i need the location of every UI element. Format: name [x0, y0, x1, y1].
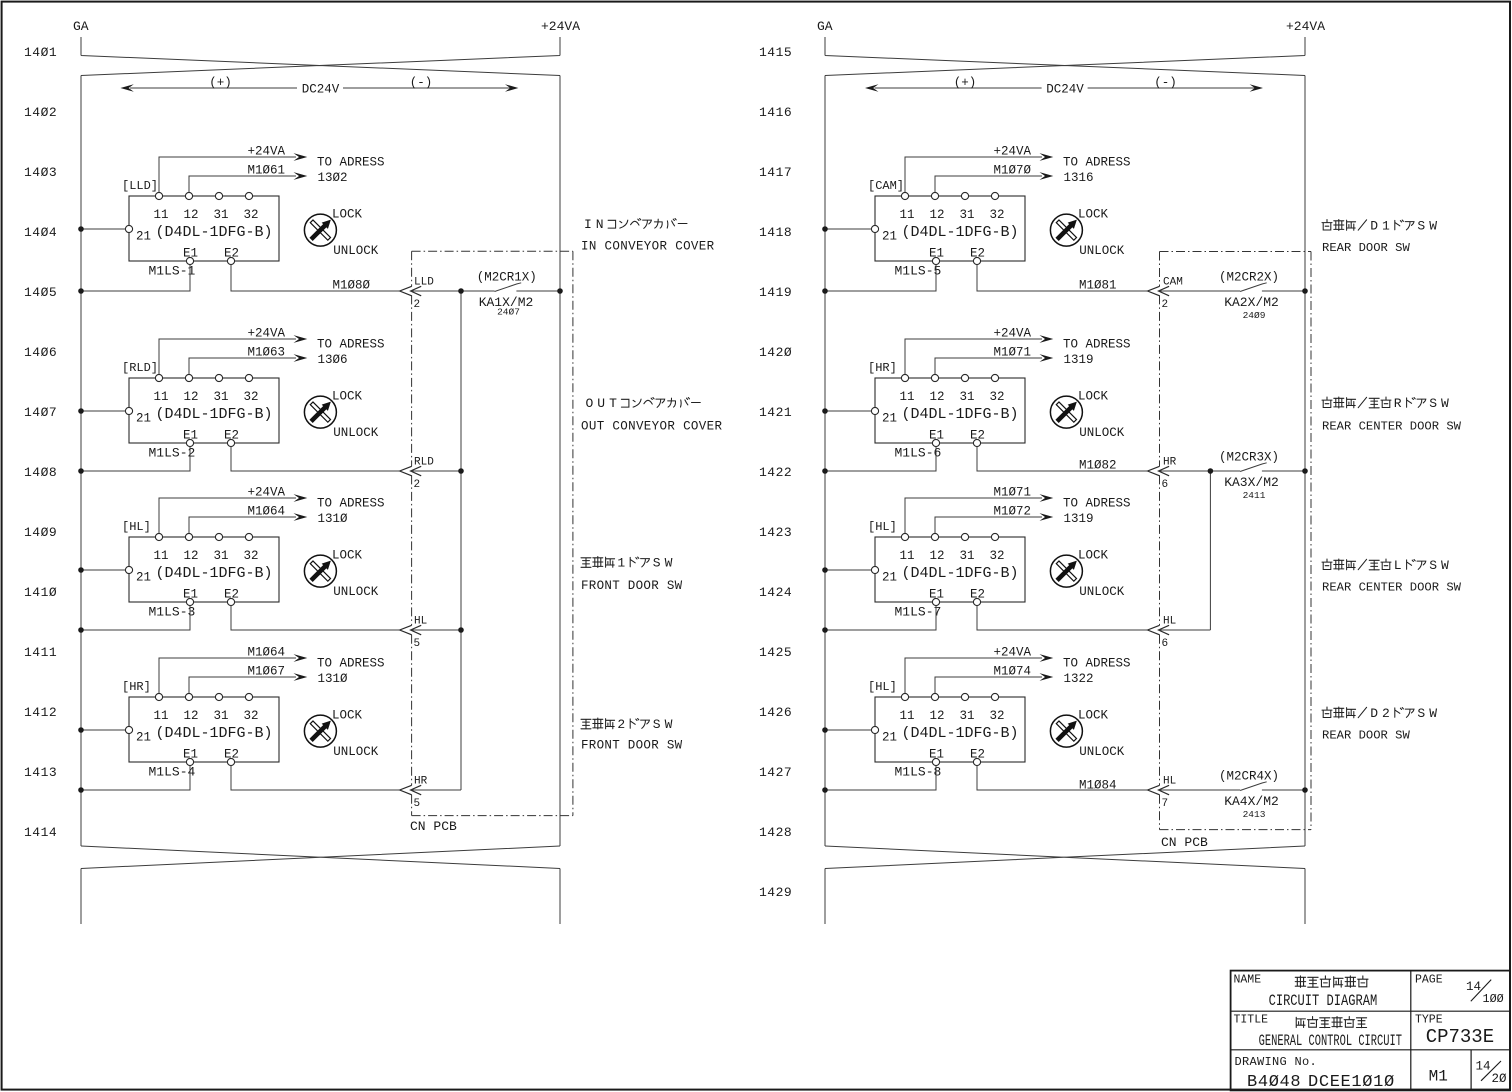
- connector pin HR 5: [400, 785, 422, 795]
- limit switch M1LS-3 (D4DL-1DFG-B) [HL]: [122, 486, 385, 620]
- svg-text:+24VA: +24VA: [247, 145, 285, 159]
- svg-text:[HL]: [HL]: [868, 520, 897, 534]
- svg-text:1425: 1425: [759, 645, 792, 660]
- svg-text:1418: 1418: [759, 225, 792, 240]
- svg-text:1428: 1428: [759, 825, 792, 840]
- relay contact KA3X/M2 (M2CR3X): [1240, 463, 1267, 472]
- svg-text:1319: 1319: [1064, 512, 1094, 526]
- svg-text:5: 5: [414, 798, 421, 810]
- svg-text:1ØØ: 1ØØ: [1483, 992, 1504, 1006]
- limit switch M1LS-1 (D4DL-1DFG-B) [LLD]: [122, 145, 385, 279]
- svg-text:14: 14: [1466, 980, 1481, 994]
- svg-text:2: 2: [414, 299, 421, 311]
- svg-text:2Ø: 2Ø: [1492, 1072, 1508, 1086]
- svg-text:S: S: [1417, 219, 1425, 234]
- svg-text:+24VA: +24VA: [1286, 19, 1325, 34]
- svg-text:141Ø: 141Ø: [24, 585, 57, 600]
- svg-text:W: W: [1429, 706, 1437, 721]
- connector pin HL 6: [1148, 625, 1170, 635]
- svg-text:M1Ø71: M1Ø71: [993, 486, 1031, 500]
- svg-text:5: 5: [414, 638, 421, 650]
- label: rear door / center R door SW (JP): [1322, 396, 1449, 411]
- svg-text:1417: 1417: [759, 165, 792, 180]
- svg-text:M1Ø84: M1Ø84: [1079, 779, 1117, 793]
- svg-text:IN CONVEYOR COVER: IN CONVEYOR COVER: [581, 240, 715, 254]
- DC24V polarity arrow: [120, 76, 518, 97]
- wire: bus to M1LS-4 pin 21: [81, 729, 125, 731]
- connector pin HR 6: [1148, 466, 1170, 476]
- svg-text:142Ø: 142Ø: [759, 345, 792, 360]
- svg-text:M1Ø74: M1Ø74: [993, 665, 1031, 679]
- wire: bus to M1LS-1 pin 21: [81, 228, 125, 230]
- svg-text:13Ø2: 13Ø2: [318, 171, 348, 185]
- svg-text:W: W: [665, 556, 673, 571]
- title: CIRCUIT DIAGRAM (JP): [1295, 976, 1368, 987]
- svg-text:KA4X/M2: KA4X/M2: [1224, 794, 1279, 809]
- wire: M1LS-3 E1/E2 to row: [81, 606, 400, 630]
- svg-text:CN PCB: CN PCB: [1161, 835, 1208, 850]
- wire: GA bus (right column): [824, 76, 826, 847]
- wire: M1LS-6 E1/E2 to row 1422: [825, 447, 1148, 471]
- svg-text:S: S: [1429, 396, 1437, 411]
- svg-text:S: S: [1417, 706, 1425, 721]
- svg-text:S: S: [1429, 558, 1437, 573]
- svg-text:1411: 1411: [24, 645, 57, 660]
- svg-text:S: S: [653, 717, 661, 732]
- svg-text:1316: 1316: [1064, 171, 1094, 185]
- svg-text:M1LS-2: M1LS-2: [149, 446, 196, 461]
- svg-text:FRONT DOOR SW: FRONT DOOR SW: [581, 739, 683, 753]
- svg-text:HR: HR: [414, 776, 428, 788]
- junction dots (left column): [78, 226, 563, 793]
- svg-text:HL: HL: [1163, 776, 1176, 788]
- svg-text:DC24V: DC24V: [302, 83, 340, 97]
- title block: [1231, 971, 1510, 1092]
- svg-text:M1Ø8Ø: M1Ø8Ø: [332, 279, 370, 293]
- svg-text:2: 2: [617, 717, 625, 732]
- svg-text:D: D: [1370, 706, 1378, 721]
- wire: M1LS-1 E1/E2 to row 1405: [81, 265, 400, 291]
- connector pin CAM 2: [1148, 286, 1170, 296]
- svg-text:14Ø2: 14Ø2: [24, 105, 57, 120]
- svg-text:+24VA: +24VA: [247, 486, 285, 500]
- svg-text:2413: 2413: [1243, 809, 1266, 820]
- svg-text:GA: GA: [817, 19, 833, 34]
- svg-text:U: U: [597, 396, 605, 411]
- relay contact KA1X/M2 (M2CR1X): [495, 283, 522, 292]
- svg-text:M1Ø7Ø: M1Ø7Ø: [993, 164, 1031, 178]
- wire: page-continuation crossing (bottom): [81, 846, 560, 924]
- svg-text:2: 2: [414, 479, 421, 491]
- svg-text:GENERAL CONTROL CIRCUIT: GENERAL CONTROL CIRCUIT: [1259, 1032, 1402, 1050]
- wire: M1LS-2 E1/E2 to row 1408: [81, 447, 400, 471]
- svg-text:DC24V: DC24V: [1046, 83, 1084, 97]
- wire: chevrons to common node (x=461): [411, 291, 495, 790]
- svg-text:2411: 2411: [1243, 490, 1266, 501]
- svg-text:[HL]: [HL]: [122, 520, 151, 534]
- svg-text:(-): (-): [410, 76, 433, 90]
- svg-text:1419: 1419: [759, 285, 792, 300]
- svg-text:1319: 1319: [1064, 353, 1094, 367]
- svg-text:1413: 1413: [24, 765, 57, 780]
- svg-text:1429: 1429: [759, 885, 792, 900]
- svg-text:[HL]: [HL]: [868, 680, 897, 694]
- svg-text:M1Ø81: M1Ø81: [1079, 279, 1117, 293]
- svg-text:T: T: [609, 396, 617, 411]
- svg-text:[RLD]: [RLD]: [122, 361, 158, 375]
- svg-text:7: 7: [1162, 798, 1169, 810]
- svg-text:DRAWING No.: DRAWING No.: [1235, 1055, 1318, 1069]
- wire: M1LS-8 E1/E2 to row: [825, 766, 1148, 790]
- svg-text:CAM: CAM: [1163, 277, 1183, 289]
- svg-text:131Ø: 131Ø: [318, 672, 349, 686]
- svg-text:M1LS-4: M1LS-4: [149, 765, 196, 780]
- svg-text:M1LS-1: M1LS-1: [149, 264, 196, 279]
- svg-text:M1LS-3: M1LS-3: [149, 605, 196, 620]
- svg-text:14: 14: [1476, 1060, 1491, 1074]
- limit switch M1LS-6 (D4DL-1DFG-B) [HR]: [868, 327, 1131, 461]
- svg-text:1422: 1422: [759, 465, 792, 480]
- svg-text:M1Ø64: M1Ø64: [247, 505, 285, 519]
- svg-text:M1Ø63: M1Ø63: [247, 346, 285, 360]
- svg-text:NAME: NAME: [1234, 974, 1262, 987]
- svg-text:14Ø7: 14Ø7: [24, 405, 57, 420]
- svg-text:13Ø6: 13Ø6: [318, 353, 348, 367]
- svg-text:(+): (+): [954, 76, 977, 90]
- svg-text:1424: 1424: [759, 585, 792, 600]
- svg-text:REAR CENTER DOOR SW: REAR CENTER DOOR SW: [1322, 581, 1462, 595]
- svg-text:FRONT DOOR SW: FRONT DOOR SW: [581, 579, 683, 593]
- DC24V polarity arrow (right column): [865, 76, 1263, 97]
- svg-text:O: O: [585, 396, 593, 411]
- svg-text:+24VA: +24VA: [993, 327, 1031, 341]
- svg-text:M1Ø82: M1Ø82: [1079, 459, 1117, 473]
- svg-text:(+): (+): [209, 76, 232, 90]
- wire: bus to M1LS-5 pin 21: [825, 228, 871, 230]
- svg-text:RLD: RLD: [414, 457, 434, 469]
- limit switch M1LS-5 (D4DL-1DFG-B) [CAM]: [868, 145, 1131, 279]
- svg-text:M1Ø72: M1Ø72: [993, 505, 1031, 519]
- wire: M1LS-7 E1/E2 to row: [825, 606, 1148, 630]
- svg-text:(M2CR4X): (M2CR4X): [1219, 769, 1279, 783]
- relay contact KA2X/M2 (M2CR2X): [1240, 283, 1267, 292]
- relay contact KA4X/M2 (M2CR4X): [1240, 782, 1267, 791]
- svg-text:[HR]: [HR]: [122, 680, 151, 694]
- svg-text:(-): (-): [1154, 76, 1177, 90]
- svg-text:+24VA: +24VA: [993, 646, 1031, 660]
- svg-text:14Ø5: 14Ø5: [24, 285, 57, 300]
- svg-text:24Ø7: 24Ø7: [497, 307, 520, 318]
- connector pin LLD 2: [400, 286, 422, 296]
- svg-text:M1: M1: [1429, 1068, 1448, 1086]
- svg-text:L: L: [1394, 558, 1402, 573]
- svg-text:6: 6: [1162, 638, 1169, 650]
- svg-text:1421: 1421: [759, 405, 792, 420]
- svg-text:1: 1: [1382, 219, 1390, 234]
- svg-text:1412: 1412: [24, 705, 57, 720]
- svg-text:1414: 1414: [24, 825, 57, 840]
- CN PCB boundary (left column, dash-dot): [412, 251, 573, 815]
- svg-text:HL: HL: [1163, 616, 1176, 628]
- svg-text:131Ø: 131Ø: [318, 512, 349, 526]
- svg-text:D: D: [1370, 219, 1378, 234]
- svg-text:KA3X/M2: KA3X/M2: [1224, 475, 1279, 490]
- svg-text:14Ø9: 14Ø9: [24, 525, 57, 540]
- svg-text:REAR CENTER DOOR SW: REAR CENTER DOOR SW: [1322, 420, 1462, 434]
- svg-text:[CAM]: [CAM]: [868, 179, 904, 193]
- wire: M1LS-5 E1/E2 to row 1419: [825, 265, 1148, 291]
- svg-text:+24VA: +24VA: [541, 19, 580, 34]
- svg-text:M1LS-7: M1LS-7: [895, 605, 942, 620]
- label: OUT conveyor cover (JP): [585, 396, 700, 411]
- svg-text:(M2CR2X): (M2CR2X): [1219, 270, 1279, 284]
- limit switch M1LS-4 (D4DL-1DFG-B) [HR]: [122, 646, 385, 780]
- label: rear door / D1 door SW (JP): [1322, 219, 1437, 234]
- wire: M1LS-4 E1/E2 to row: [81, 766, 400, 790]
- label: front door 2 SW (JP): [581, 717, 673, 732]
- svg-text:14Ø4: 14Ø4: [24, 225, 57, 240]
- wire: bus stubs + crossing (top, right column): [825, 37, 1305, 76]
- row numbers 1415-1429: [759, 45, 792, 900]
- connector pin HL 7: [1148, 785, 1170, 795]
- svg-text:CIRCUIT DIAGRAM: CIRCUIT DIAGRAM: [1269, 993, 1378, 1011]
- svg-text:14Ø3: 14Ø3: [24, 165, 57, 180]
- svg-text:24Ø9: 24Ø9: [1243, 310, 1266, 321]
- label: IN conveyor cover (JP): [584, 217, 687, 232]
- svg-text:(M2CR3X): (M2CR3X): [1219, 450, 1279, 464]
- junction dots (right column): [822, 226, 1308, 793]
- label: front door 1 SW (JP): [581, 556, 673, 571]
- wire: bus to M1LS-2 pin 21: [81, 410, 125, 412]
- svg-text:M1Ø71: M1Ø71: [993, 346, 1031, 360]
- wire: GA bus stub + page-continuation crossing (top): [81, 37, 560, 76]
- svg-text:[LLD]: [LLD]: [122, 179, 158, 193]
- svg-text:REAR DOOR SW: REAR DOOR SW: [1322, 241, 1410, 255]
- svg-text:DCEE1Ø1Ø: DCEE1Ø1Ø: [1308, 1073, 1395, 1092]
- svg-text:PAGE: PAGE: [1415, 974, 1443, 987]
- svg-text:M1LS-5: M1LS-5: [895, 264, 942, 279]
- wire: +24VA bus (right vertical): [559, 76, 561, 847]
- svg-text:LLD: LLD: [414, 277, 434, 289]
- wire: bus to M1LS-6 pin 21: [825, 410, 871, 412]
- wire: crossing (bottom, right column): [825, 846, 1305, 924]
- wire: chevron rows to relays / vertical link: [1159, 291, 1241, 790]
- wire: bus to M1LS-7 pin 21: [825, 569, 871, 571]
- svg-text:2: 2: [1382, 706, 1390, 721]
- svg-text:(M2CR1X): (M2CR1X): [477, 270, 537, 284]
- svg-text:W: W: [665, 717, 673, 732]
- svg-text:N: N: [596, 217, 604, 232]
- wire: +24VA bus (right column): [1304, 76, 1306, 847]
- svg-text:1322: 1322: [1064, 672, 1094, 686]
- svg-text:14Ø1: 14Ø1: [24, 45, 57, 60]
- svg-text:OUT CONVEYOR COVER: OUT CONVEYOR COVER: [581, 420, 722, 434]
- connector pin RLD 2: [400, 466, 422, 476]
- svg-text:M1Ø64: M1Ø64: [247, 646, 285, 660]
- svg-text:HR: HR: [1163, 457, 1177, 469]
- svg-text:TYPE: TYPE: [1415, 1014, 1443, 1027]
- svg-text:HL: HL: [414, 616, 427, 628]
- connector pin HL 5: [400, 625, 422, 635]
- svg-text:I: I: [584, 217, 592, 232]
- svg-text:1427: 1427: [759, 765, 792, 780]
- row numbers 1401-1414: [24, 45, 57, 840]
- wire: GA bus (left vertical): [80, 76, 82, 847]
- svg-text:1423: 1423: [759, 525, 792, 540]
- wire: bus to M1LS-8 pin 21: [825, 729, 871, 731]
- svg-text:1416: 1416: [759, 105, 792, 120]
- svg-text:1: 1: [617, 556, 625, 571]
- label: rear door / D2 door SW (JP): [1322, 706, 1437, 721]
- limit switch M1LS-2 (D4DL-1DFG-B) [RLD]: [122, 327, 385, 461]
- svg-text:REAR DOOR SW: REAR DOOR SW: [1322, 729, 1410, 743]
- svg-text:R: R: [1394, 396, 1402, 411]
- label: rear door / center L door SW (JP): [1322, 558, 1449, 573]
- svg-text:[HR]: [HR]: [868, 361, 897, 375]
- title: GENERAL CONTROL CIRCUIT (JP): [1296, 1017, 1366, 1028]
- svg-text:+24VA: +24VA: [247, 327, 285, 341]
- svg-text:W: W: [1429, 219, 1437, 234]
- svg-text:M1Ø67: M1Ø67: [247, 665, 285, 679]
- svg-text:S: S: [653, 556, 661, 571]
- svg-text:W: W: [1441, 396, 1449, 411]
- svg-text:14Ø6: 14Ø6: [24, 345, 57, 360]
- svg-text:1426: 1426: [759, 705, 792, 720]
- svg-text:+24VA: +24VA: [993, 145, 1031, 159]
- svg-text:M1LS-8: M1LS-8: [895, 765, 942, 780]
- svg-text:M1Ø61: M1Ø61: [247, 164, 285, 178]
- svg-text:CP733E: CP733E: [1426, 1026, 1494, 1048]
- svg-text:W: W: [1441, 558, 1449, 573]
- svg-text:TITLE: TITLE: [1234, 1014, 1269, 1027]
- limit switch M1LS-8 (D4DL-1DFG-B) [HL]: [868, 646, 1131, 780]
- svg-text:14Ø8: 14Ø8: [24, 465, 57, 480]
- svg-text:1415: 1415: [759, 45, 792, 60]
- svg-text:6: 6: [1162, 479, 1169, 491]
- wire: bus to M1LS-3 pin 21: [81, 569, 125, 571]
- svg-text:B4Ø48: B4Ø48: [1247, 1073, 1301, 1092]
- svg-text:KA2X/M2: KA2X/M2: [1224, 295, 1279, 310]
- limit switch M1LS-7 (D4DL-1DFG-B) [HL]: [868, 486, 1131, 620]
- svg-text:CN PCB: CN PCB: [410, 819, 457, 834]
- svg-text:M1LS-6: M1LS-6: [895, 446, 942, 461]
- CN PCB boundary (right column, dash-dot): [1160, 252, 1312, 830]
- svg-text:2: 2: [1162, 299, 1169, 311]
- svg-text:GA: GA: [73, 19, 89, 34]
